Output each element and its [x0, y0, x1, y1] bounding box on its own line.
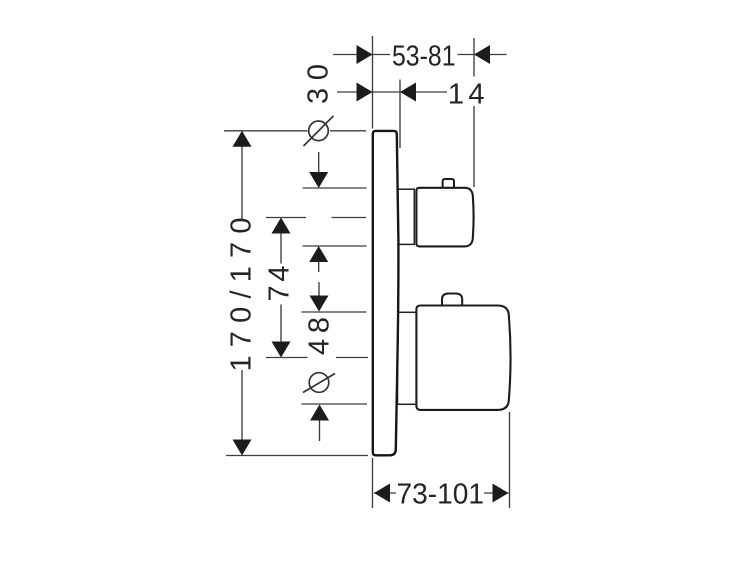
- arrowhead 14 left: [357, 83, 373, 102]
- svg-text:53-81: 53-81: [392, 41, 456, 73]
- dim 48 tick at stem2 bottom: [302, 403, 368, 405]
- arrowhead 170/170 bottom: [233, 440, 252, 456]
- stem of lower handle: [398, 312, 417, 404]
- knob2 axis extension line: [266, 357, 308, 359]
- arrowhead 53-81 right: [474, 45, 490, 64]
- dim 170/170 bottom tick: [226, 455, 368, 457]
- dim 170/170 top tick with diameter line: [224, 130, 308, 132]
- arrowhead 48 upper (points down): [310, 296, 329, 312]
- lower handle knob: [416, 306, 510, 410]
- dim 53-81 right extension line (knob1 front): [473, 38, 475, 77]
- dim 30 stub below lower arrow: [318, 262, 320, 272]
- arrowhead 74 bottom: [272, 342, 291, 358]
- dim 73-101 left extension line: [372, 458, 374, 508]
- dim 74 dimension line: [280, 234, 282, 264]
- dim 53-81 left extension line (wall plane): [372, 36, 374, 129]
- tab on upper handle: [443, 179, 454, 189]
- svg-text:73-101: 73-101: [397, 479, 485, 511]
- arrowhead 30 upper (points down): [309, 172, 328, 188]
- arrowhead 73-101 right: [493, 484, 509, 503]
- diameter symbol upper: [304, 116, 334, 146]
- dim 48 stub above upper arrow: [318, 282, 320, 296]
- arrowhead 170/170 top: [233, 131, 252, 147]
- arrowhead 73-101 left: [374, 484, 390, 503]
- knob1 axis extension line: [266, 217, 306, 219]
- diameter symbol lower: [303, 373, 335, 393]
- svg-text:4: 4: [468, 78, 484, 110]
- dim 53-81 dimension line: [333, 54, 390, 56]
- dim 30 tick at knob1 top: [303, 187, 367, 189]
- dim 48 stub below lower arrow: [319, 421, 321, 442]
- dim 14 dimension line: [337, 91, 447, 93]
- escutcheon plate (side view): [373, 131, 399, 455]
- dim 48 tick at stem2 top: [302, 311, 367, 313]
- arrowhead 74 top: [272, 218, 291, 234]
- arrowhead 48 lower (points up): [310, 405, 329, 421]
- dim 73-101 dimension line: [374, 492, 396, 494]
- dim 73-101 right extension line (knob2 front): [509, 412, 511, 508]
- dim 30 stub above upper arrow: [318, 152, 320, 172]
- button on lower handle: [442, 294, 462, 308]
- dim 14 right extension line (plate front): [399, 80, 401, 149]
- dim 30 tick at knob1 bottom: [303, 245, 367, 247]
- dim 170/170 dimension line: [241, 146, 243, 219]
- upper handle knob: [416, 188, 473, 247]
- svg-text:1: 1: [448, 78, 464, 110]
- stem of upper handle: [398, 189, 415, 244]
- arrowhead 53-81 left: [357, 45, 373, 64]
- arrowhead 30 lower (points up): [309, 246, 328, 262]
- arrowhead 14 right: [400, 83, 416, 102]
